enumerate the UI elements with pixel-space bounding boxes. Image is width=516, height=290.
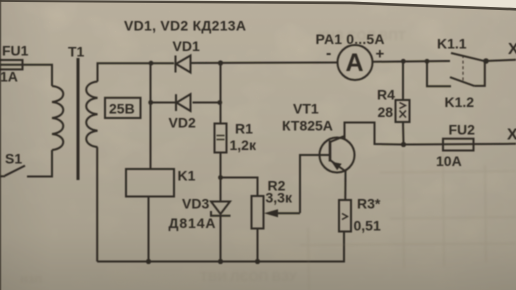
wire: VD1 to PA1	[191, 62, 338, 65]
svg-text:КЦЗ ЄОЛ ВПТ: КЦЗ ЄОЛ ВПТ	[318, 28, 406, 43]
R2 wiper arrow	[264, 209, 300, 217]
svg-text:S1: S1	[5, 151, 22, 167]
svg-text:ТВИ ЛЄОП ВЗУ: ТВИ ЛЄОП ВЗУ	[200, 269, 298, 284]
svg-text:K1.1: K1.1	[437, 36, 467, 52]
diode VD1	[176, 56, 191, 73]
wire: vertical from rail node down to K1 coil	[150, 63, 152, 169]
scan top edge dark line	[0, 0, 516, 11]
wire: collector up and over to node	[345, 123, 404, 145]
wire: VD3 cathode top / anode bottom	[220, 178, 222, 202]
resistor R4	[396, 100, 410, 122]
svg-text:R3*: R3*	[357, 196, 381, 212]
wire: emitter down to R3	[344, 171, 346, 200]
relay contact K1.1	[451, 53, 485, 61]
svg-text:Х: Х	[508, 41, 516, 58]
wire: R4 top to rail	[402, 61, 404, 100]
resistor R1	[215, 124, 227, 153]
transformer T1 secondary winding	[86, 82, 97, 148]
ground bus wire	[97, 232, 344, 262]
wire: S1 to left edge	[0, 175, 5, 177]
R3 power mark V	[342, 214, 348, 220]
switch S1	[5, 166, 25, 176]
wire: node to R2 top	[221, 178, 258, 197]
bleed-through ghosts	[20, 28, 406, 286]
wire: rail to right edge terminal	[485, 60, 516, 61]
wire: R1 bottom to node	[220, 153, 222, 178]
ammeter PA1	[338, 45, 373, 80]
contact link dashed	[462, 55, 464, 81]
wire: VD2 cathode to R1 branch	[193, 102, 220, 104]
diode VD2	[176, 94, 191, 111]
wire: rail node down through R1 branch	[220, 63, 222, 124]
wire: PA1 to K1.1 area	[373, 60, 451, 63]
svg-text:3,3к: 3,3к	[266, 190, 293, 206]
svg-text:VD3: VD3	[182, 196, 209, 212]
scan left edge dark line	[0, 0, 1, 290]
wire: VD2 anode wire	[151, 102, 177, 104]
resistor R1 power marks	[217, 136, 225, 140]
bleed-through ghost grid	[300, 150, 516, 290]
svg-text:Х: Х	[507, 127, 516, 144]
svg-text:R1: R1	[235, 121, 253, 137]
wire: mains input top from left edge to FU1 and to T1 primary	[0, 65, 52, 86]
scan top edge white strip	[0, 0, 516, 8]
relay coil K1	[126, 169, 174, 197]
svg-text:VT1: VT1	[293, 101, 319, 117]
resistor R3*	[339, 200, 351, 232]
wire: secondary bottom down to ground bus	[96, 147, 98, 261]
wire: K1 bottom lead to bus	[148, 197, 150, 262]
wire: wiper up to VT1 base	[300, 155, 329, 213]
transformer T1 primary winding	[52, 86, 63, 150]
svg-text:T1: T1	[68, 44, 85, 60]
svg-text:0,51: 0,51	[354, 218, 381, 234]
transformer T1 core	[77, 58, 80, 180]
svg-text:K1: K1	[178, 168, 196, 184]
svg-text:-: -	[326, 45, 331, 62]
svg-text:K1.2: K1.2	[445, 94, 475, 110]
wire: R4 bottom to collector node	[402, 122, 405, 145]
wire: node through FU2 to right edge	[404, 143, 516, 146]
fuse FU2	[443, 139, 474, 151]
R4 power marks XV	[400, 103, 407, 118]
transistor VT1	[320, 136, 355, 172]
svg-text:VD2: VD2	[169, 115, 196, 131]
svg-text:28: 28	[378, 104, 394, 120]
svg-text:1A: 1A	[0, 69, 18, 85]
relay contact K1.2	[427, 61, 485, 86]
svg-text:FU2: FU2	[449, 122, 476, 138]
svg-text:R4: R4	[377, 87, 395, 103]
zener diode VD3	[211, 202, 231, 216]
junction node dots	[146, 58, 489, 264]
svg-text:25В: 25В	[109, 101, 135, 117]
svg-text:A: A	[346, 49, 364, 77]
svg-text:10А: 10А	[436, 153, 462, 169]
svg-text:КТ825А: КТ825А	[282, 118, 333, 134]
svg-text:VD1: VD1	[173, 38, 200, 54]
svg-text:нзп: нзп	[20, 271, 42, 286]
fuse FU1	[0, 60, 23, 69]
svg-text:1,2к: 1,2к	[230, 137, 257, 153]
wire: R2 bottom to bus	[257, 229, 259, 262]
voltage label box 25В	[105, 98, 141, 118]
svg-text:+: +	[376, 46, 385, 63]
svg-text:VD1, VD2 КД213А: VD1, VD2 КД213А	[124, 18, 246, 34]
potentiometer R2	[252, 196, 264, 229]
svg-text:FU1: FU1	[2, 43, 29, 59]
wire: primary bottom to switch	[27, 150, 52, 177]
wire: secondary top to rail	[98, 63, 175, 81]
svg-text:Д814А: Д814А	[169, 215, 216, 231]
